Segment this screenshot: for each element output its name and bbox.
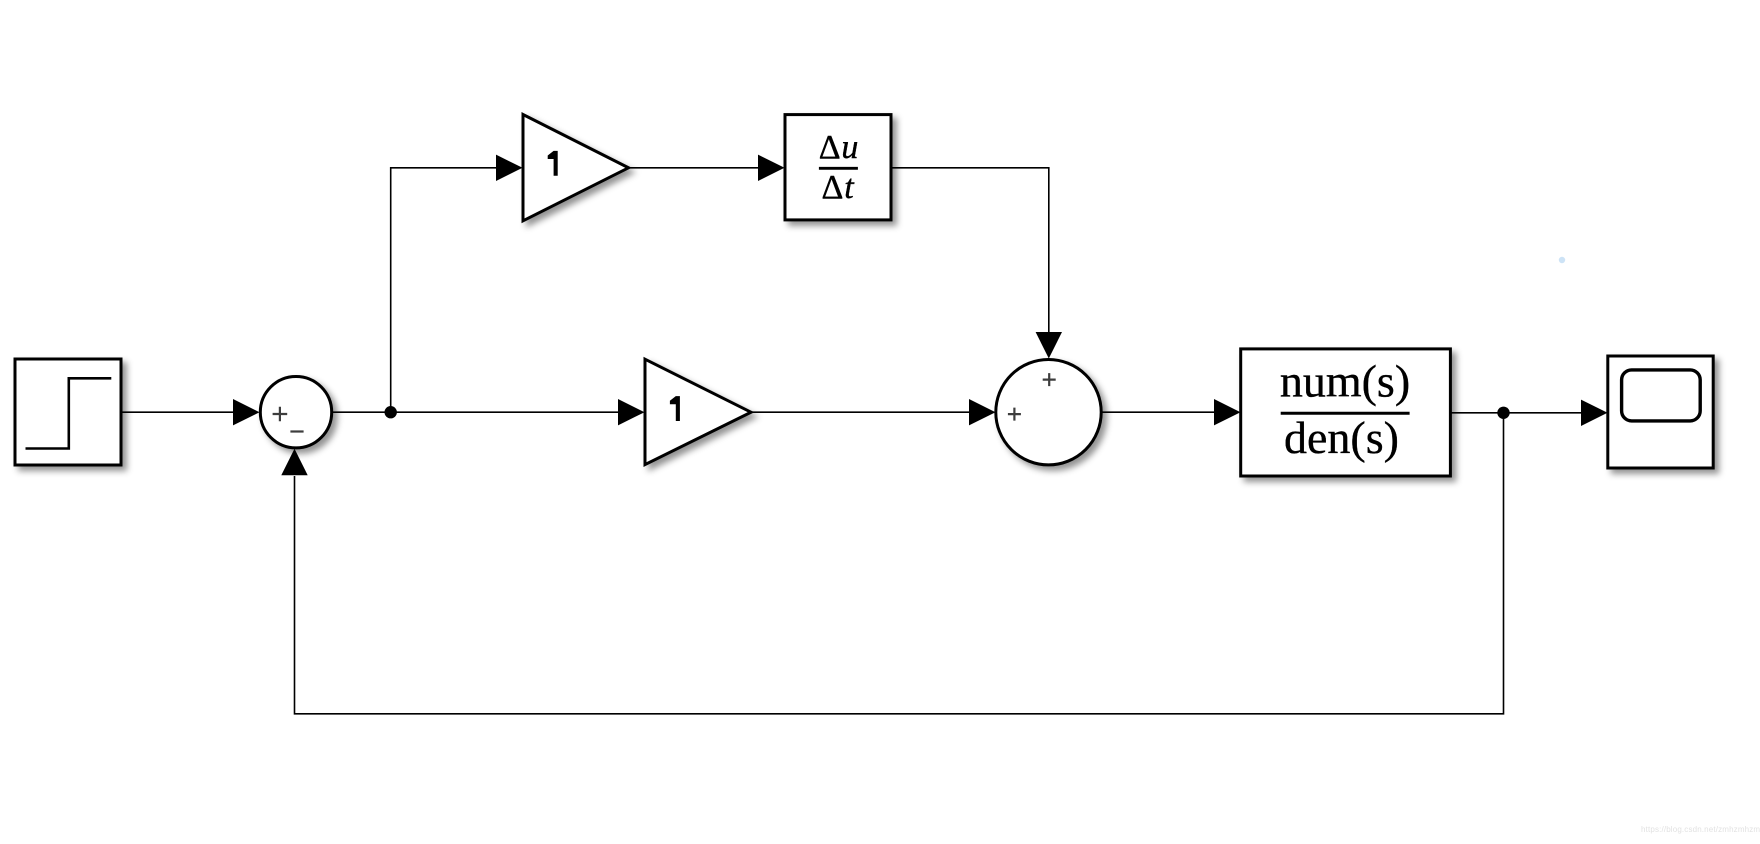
sum2 plus sign left (1008, 408, 1021, 421)
gain1 value 1 (548, 151, 558, 176)
node dot before scope (1497, 407, 1509, 419)
node dot after sum1 (385, 406, 397, 418)
sum2 plus sign top (1043, 373, 1056, 386)
arrowhead into sum1 (233, 399, 260, 425)
svg-text:den(s): den(s) (1284, 412, 1399, 463)
svg-text:num(s): num(s) (1280, 356, 1410, 407)
wire: branch up from node (391, 168, 497, 412)
derivative block (785, 115, 891, 220)
step block (15, 359, 121, 465)
arrowhead into derivative (758, 155, 785, 181)
wire: sum1 to gain2 (332, 411, 620, 413)
sum1 minus sign (290, 430, 303, 432)
wire: gain2 to sum2 (751, 411, 970, 413)
gain2 triangle (645, 359, 751, 464)
feedback wire (295, 413, 1504, 714)
arrowhead down into sum2 (1036, 332, 1062, 359)
wire: step to sum1 (121, 411, 235, 413)
gain1 triangle (523, 115, 629, 221)
arrowhead into gain1 (496, 155, 523, 181)
sum1 circle (260, 377, 331, 448)
transfer fn label num(s)/den(s) (1280, 356, 1410, 464)
sum1 plus sign (273, 407, 288, 422)
scope block (1608, 356, 1713, 468)
step icon (26, 378, 112, 448)
svg-text:Δt: Δt (822, 169, 856, 206)
wire: transfer fn to scope (1451, 412, 1583, 414)
wire: gain1 to derivative (629, 167, 760, 169)
watermark (1641, 825, 1759, 834)
stray blue dot (1559, 257, 1565, 263)
arrowhead into transfer fn (1214, 399, 1241, 425)
gain2 value 1 (670, 396, 680, 421)
arrowhead up into sum1 bottom (281, 449, 307, 476)
wire: derivative to sum2 top (891, 168, 1049, 333)
sum2 circle (996, 360, 1101, 465)
scope screen (1622, 370, 1701, 421)
derivative label du/dt (819, 129, 859, 206)
transfer fn block (1241, 349, 1451, 476)
wire: sum2 to transfer fn (1101, 411, 1215, 413)
arrowhead into scope (1581, 400, 1608, 426)
svg-text:Δu: Δu (819, 129, 859, 166)
arrowhead into sum2 (969, 399, 996, 425)
arrowhead into gain2 (618, 399, 645, 425)
